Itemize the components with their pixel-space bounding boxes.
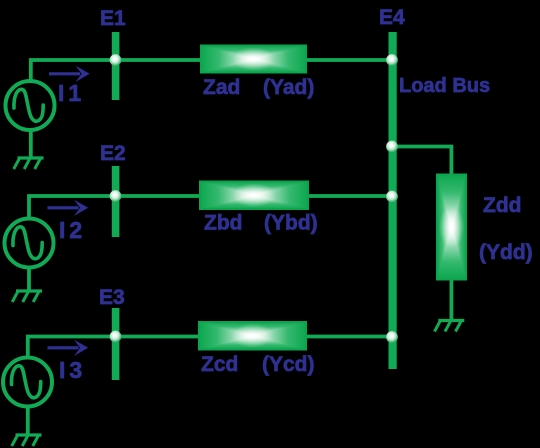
svg-text:Zcd: Zcd: [201, 353, 238, 376]
label I3: [59, 357, 86, 383]
ground below source 2: [12, 291, 42, 302]
current arrow I2: [48, 200, 89, 216]
label (Yad): [263, 76, 314, 99]
wire: source2 bottom lead to ground: [27, 268, 31, 290]
node at load bus tap: [386, 141, 398, 153]
voltage source 2: [5, 219, 54, 268]
wire: source1 top lead to bus E1: [31, 60, 119, 80]
voltage source 3: [3, 358, 52, 407]
current arrow I1: [49, 66, 90, 82]
svg-text:I2: I2: [59, 217, 86, 243]
svg-text:E1: E1: [100, 7, 126, 30]
wire: bus E3 to impedance Zcd left terminal: [119, 335, 201, 339]
wire: source3 top lead to bus E3: [28, 337, 119, 358]
svg-text:E2: E2: [100, 142, 126, 165]
wire: source3 bottom lead to ground: [26, 406, 30, 434]
load bus bar E4: [389, 32, 397, 369]
node at bus E3: [110, 331, 122, 343]
svg-text:Zdd: Zdd: [483, 194, 521, 217]
svg-text:(Ybd): (Ybd): [264, 212, 318, 235]
wire: source2 top lead to bus E2: [29, 196, 119, 218]
label (Ycd): [262, 353, 315, 376]
label E2: [100, 142, 126, 165]
svg-text:(Yad): (Yad): [263, 76, 314, 99]
impedance Zbd: [200, 182, 308, 210]
label E3: [99, 286, 125, 309]
node at load bus row 2: [386, 191, 398, 203]
wire: impedance Zdd bottom to ground: [449, 279, 453, 319]
node at load bus row 3: [386, 331, 398, 343]
bus bar E1: [112, 32, 120, 100]
wire: impedance Zbd right terminal to load bus: [306, 194, 392, 198]
node at bus E1: [110, 54, 122, 66]
svg-text:Zbd: Zbd: [204, 212, 242, 235]
label Zad: [203, 76, 240, 99]
label Zdd: [483, 194, 521, 217]
impedance Zdd: [437, 175, 466, 280]
wire: impedance Zcd right terminal to load bus: [305, 335, 392, 339]
svg-text:Zad: Zad: [203, 76, 240, 99]
wire: bus E2 to impedance Zbd left terminal: [119, 194, 202, 198]
svg-text:(Ycd): (Ycd): [262, 353, 315, 376]
label Zcd: [201, 353, 238, 376]
svg-text:E4: E4: [379, 6, 405, 29]
impedance Zcd: [199, 322, 306, 350]
wire: impedance Zad right terminal to load bus: [305, 58, 392, 62]
wire: source1 bottom lead to ground: [29, 130, 33, 157]
wire: load bus tap to impedance Zdd: [394, 147, 451, 176]
svg-text:I1: I1: [58, 80, 85, 106]
node at bus E2: [110, 190, 122, 202]
label (Ybd): [264, 212, 318, 235]
label I2: [59, 217, 86, 243]
label E4: [379, 6, 405, 29]
ground below source 1: [14, 158, 44, 169]
svg-text:E3: E3: [99, 286, 125, 309]
svg-text:I3: I3: [59, 357, 86, 383]
svg-text:(Ydd): (Ydd): [479, 241, 533, 264]
label (Ydd): [479, 241, 533, 264]
voltage source 1: [6, 81, 55, 130]
label I1: [58, 80, 85, 106]
bus bar E2: [112, 166, 120, 237]
label Zbd: [204, 212, 242, 235]
ground below source 3: [12, 435, 42, 446]
node at load bus row 1: [386, 54, 398, 66]
impedance Zad: [201, 46, 306, 73]
current arrow I3: [48, 340, 89, 356]
label Load Bus: [399, 75, 490, 97]
bus bar E3: [112, 308, 120, 380]
label E1: [100, 7, 126, 30]
ground below impedance Zdd: [435, 321, 465, 332]
wire: bus E1 to impedance Zad left terminal: [119, 58, 202, 62]
svg-text:Load Bus: Load Bus: [399, 75, 490, 97]
